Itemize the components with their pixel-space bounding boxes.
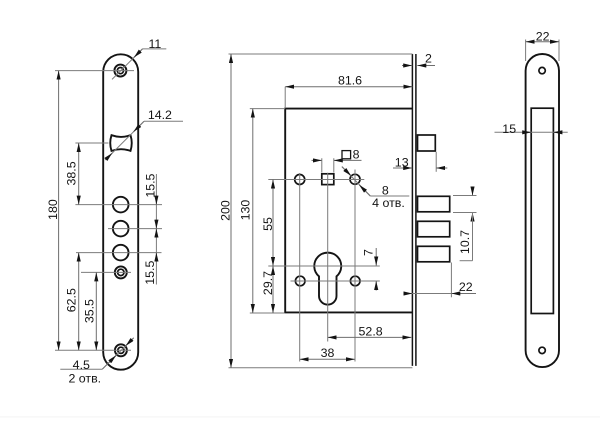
latch block [418, 135, 436, 151]
lock body outline (middle view) [285, 109, 412, 313]
dimension 22 right [526, 30, 559, 44]
strike hole top [539, 67, 545, 73]
dimension 200 [219, 54, 233, 368]
dimension 15.5 lower [143, 220, 157, 285]
square follower 8 [322, 174, 334, 185]
dimension 38 [300, 346, 355, 360]
extension bottom 200 [229, 367, 413, 369]
centerline lower holes [291, 280, 380, 282]
tick below 10.7 [460, 260, 473, 262]
bolt block 3 [418, 246, 450, 261]
svg-text:81.6: 81.6 [338, 74, 362, 88]
hole A [295, 175, 305, 185]
svg-text:7: 7 [361, 249, 375, 256]
svg-text:55: 55 [261, 217, 275, 231]
dimension 10.7 [458, 187, 472, 261]
svg-text:62.5: 62.5 [64, 288, 78, 312]
extension line small hole [81, 271, 131, 273]
follower cutout 14.2 [110, 135, 132, 151]
screw hole bottom (Ø4.5) [115, 344, 127, 356]
extension lines 22 right [526, 40, 559, 62]
centerline vertical A [299, 173, 301, 362]
page bottom rule [0, 416, 600, 417]
svg-text:11: 11 [148, 37, 161, 51]
dimension 22 middle [405, 280, 476, 294]
faceplate outline (left view) [103, 54, 138, 369]
extension line cutout [75, 142, 108, 144]
bolt block 2 [418, 221, 450, 237]
svg-text:22: 22 [536, 30, 550, 44]
strike hole bottom [539, 347, 545, 353]
centerline hole row [268, 179, 364, 181]
svg-text:8: 8 [353, 148, 360, 162]
svg-text:180: 180 [46, 199, 60, 220]
centerline vertical B [354, 170, 356, 362]
hole circle 3 [113, 245, 129, 261]
svg-text:4.5: 4.5 [73, 358, 90, 372]
svg-text:130: 130 [238, 200, 252, 221]
dimension 52.8 [328, 324, 412, 338]
lower hole right [350, 276, 360, 286]
dimension 15 [495, 122, 568, 136]
centerline vertical square/cylinder [327, 173, 329, 342]
faceplate strip [412, 54, 416, 366]
lower hole left [295, 276, 305, 286]
dimension 180 [46, 71, 60, 351]
cylinder keyhole [314, 253, 341, 305]
extension line circle1 [75, 204, 162, 206]
dimension 62.5 [64, 253, 78, 351]
screw hole top (Ø11) [114, 65, 126, 77]
centerline cylinder [268, 265, 380, 267]
extension 130 top [250, 108, 285, 110]
dimension 7 [361, 248, 376, 291]
strike box cutout [531, 108, 553, 313]
leader Ø4.5 2 holes [60, 338, 133, 386]
svg-text:15.5: 15.5 [143, 261, 157, 285]
centerline top hole [55, 70, 134, 72]
strike plate outline (right view) [526, 54, 559, 367]
svg-text:15: 15 [502, 122, 516, 136]
svg-text:15.5: 15.5 [144, 173, 158, 197]
svg-text:2: 2 [425, 52, 432, 66]
svg-text:22: 22 [459, 280, 473, 294]
svg-text:4 отв.: 4 отв. [372, 196, 405, 210]
small ringed hole [115, 266, 127, 278]
extension 130 bottom [250, 312, 284, 314]
svg-text:38: 38 [321, 346, 335, 360]
svg-text:29.7: 29.7 [261, 271, 275, 295]
dimension 55 [261, 180, 275, 267]
dimension 15.5 upper [144, 173, 158, 284]
svg-text:14.2: 14.2 [148, 108, 172, 122]
svg-text:200: 200 [219, 200, 233, 221]
dimension square 8 [312, 148, 362, 162]
centerline bottom hole [55, 349, 131, 351]
extensions 10.7 [453, 196, 477, 213]
leader Ø14.2 [105, 108, 183, 160]
hole circle 1 [113, 197, 129, 213]
svg-text:35.5: 35.5 [82, 299, 96, 323]
svg-text:52.8: 52.8 [359, 324, 383, 338]
bolt block 1 [418, 196, 450, 212]
extension 81.6 [284, 87, 286, 108]
svg-text:10.7: 10.7 [458, 230, 472, 254]
extension 22 [450, 263, 452, 298]
dimension 130 [238, 109, 253, 313]
extension top 200 [229, 53, 413, 55]
extension 13 [435, 152, 437, 172]
svg-text:13: 13 [395, 156, 409, 170]
svg-text:38.5: 38.5 [65, 161, 79, 185]
leader Ø11 [112, 37, 166, 79]
dimension 2 [402, 52, 435, 66]
dimension 35.5 [82, 272, 96, 350]
dimension 13 [393, 156, 447, 170]
hole B [350, 174, 360, 184]
extension line circle3 [76, 252, 162, 254]
dimension 81.6 [285, 74, 412, 88]
square extension lines [322, 158, 334, 172]
leader Ø8 4 holes [342, 167, 409, 210]
hole circle 2 [113, 221, 129, 237]
svg-text:2 отв.: 2 отв. [68, 371, 101, 385]
extension line circle2 [108, 228, 162, 230]
dimension 38.5 [65, 143, 79, 205]
dimension 29.7 [261, 266, 275, 313]
